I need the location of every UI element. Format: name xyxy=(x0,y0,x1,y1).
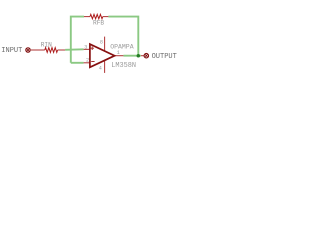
svg-text:1: 1 xyxy=(117,50,120,56)
svg-text:8: 8 xyxy=(100,39,103,45)
svg-text:INPUT: INPUT xyxy=(1,47,22,55)
svg-text:3: 3 xyxy=(84,44,87,50)
svg-text:OUTPUT: OUTPUT xyxy=(152,53,177,61)
svg-text:4: 4 xyxy=(99,65,102,71)
svg-text:2: 2 xyxy=(86,57,89,63)
svg-text:RIN: RIN xyxy=(41,41,52,48)
svg-text:RFB: RFB xyxy=(93,20,104,27)
svg-text:LM358N: LM358N xyxy=(111,62,136,70)
svg-text:OPAMPA: OPAMPA xyxy=(110,44,134,51)
